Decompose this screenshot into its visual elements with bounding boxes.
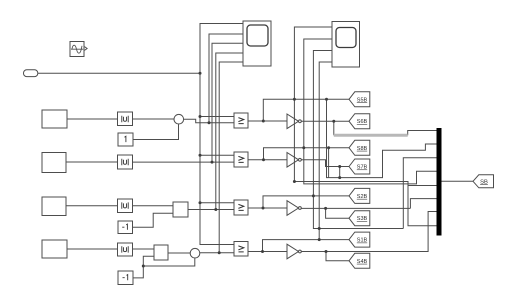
svg-text:S7B: S7B: [357, 165, 368, 171]
svg-text:S5B: S5B: [357, 97, 368, 103]
svg-text:S2B: S2B: [357, 194, 368, 200]
svg-text:S4B: S4B: [357, 259, 368, 265]
svg-text:SB: SB: [480, 179, 488, 185]
svg-text:S8B: S8B: [357, 146, 368, 152]
svg-text:S1B: S1B: [357, 238, 368, 244]
svg-text:S3B: S3B: [357, 216, 368, 222]
svg-text:S6B: S6B: [357, 119, 368, 125]
